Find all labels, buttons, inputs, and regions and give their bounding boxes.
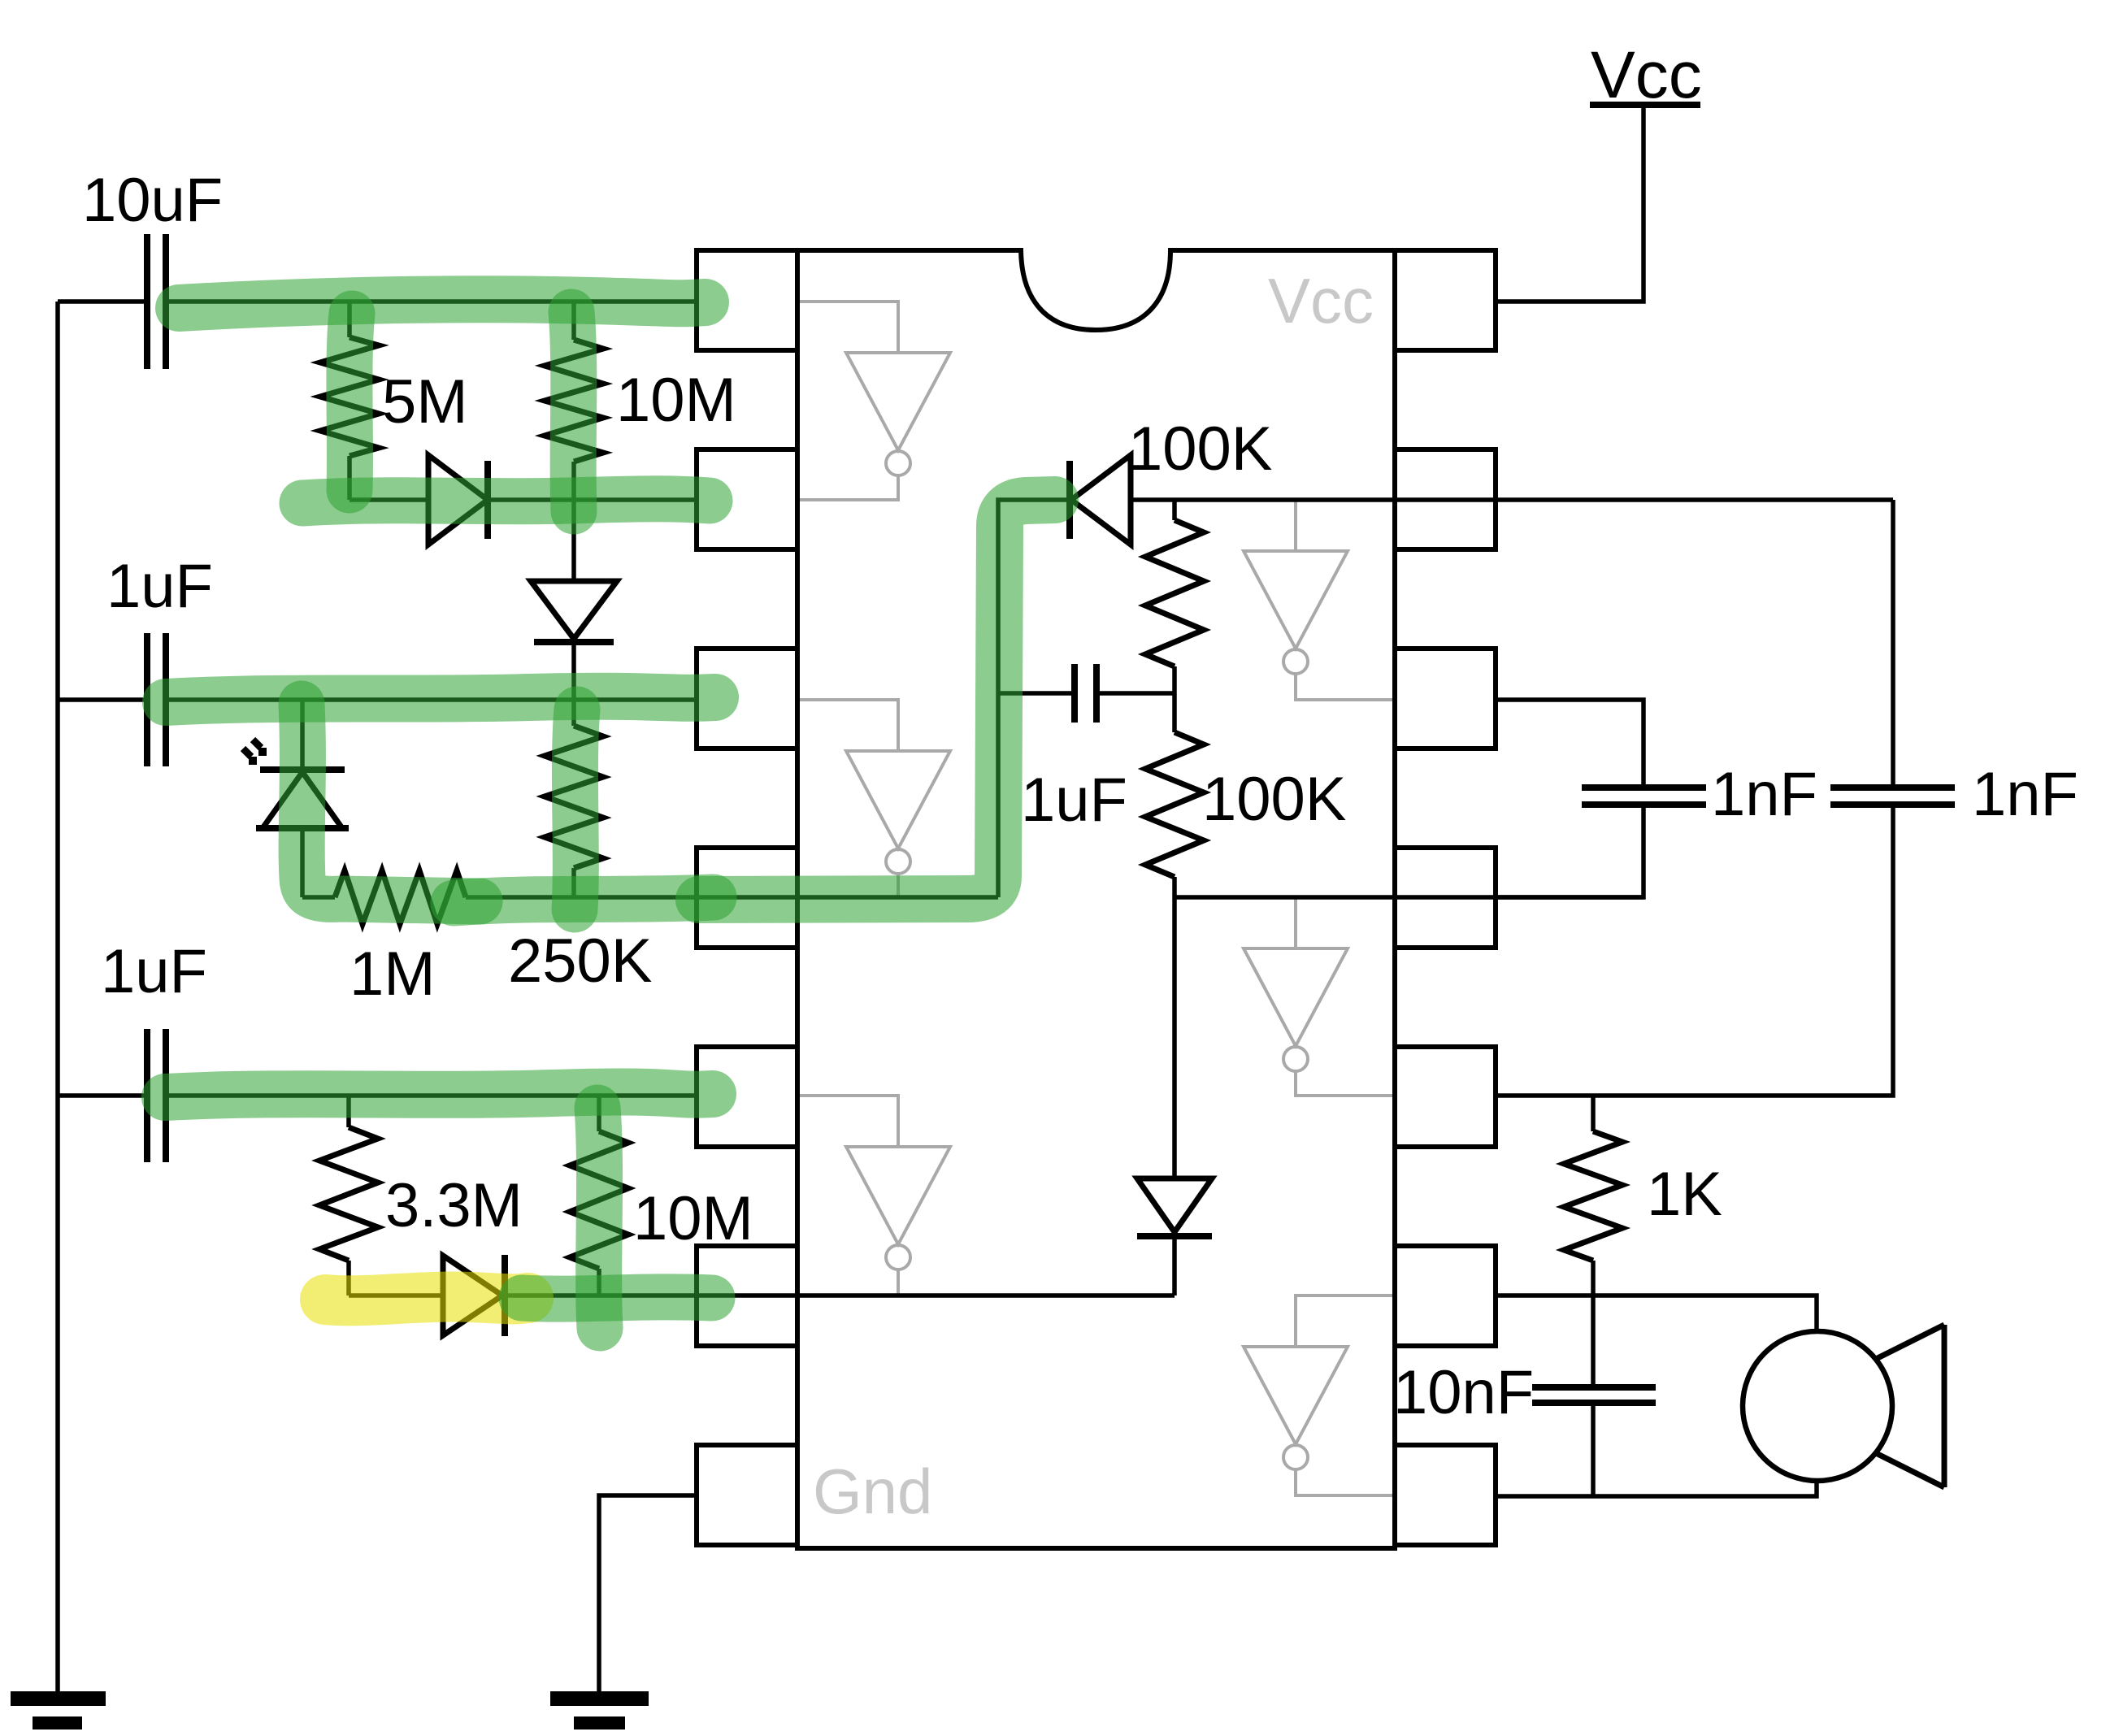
svg-text:1uF: 1uF xyxy=(101,937,207,1006)
inverter U1C (gray) xyxy=(797,1096,950,1295)
pin 9 box xyxy=(1395,1246,1496,1346)
wire pin9 row to speaker xyxy=(1496,1295,1817,1331)
diode D2 xyxy=(531,500,617,700)
IC body U1 (hex inverter) xyxy=(797,250,1395,1548)
speaker LS1 xyxy=(1743,1325,1944,1487)
highlight green pin1 wire xyxy=(179,299,706,308)
highlight green 5M xyxy=(350,314,352,490)
svg-text:5M: 5M xyxy=(382,367,468,436)
ground rail (left) xyxy=(55,302,60,1698)
resistor R9 1K xyxy=(1591,1096,1596,1131)
inverter U1E (gray) xyxy=(1244,897,1395,1096)
resistor R1 5M xyxy=(347,302,352,337)
wire pin7 to ground xyxy=(599,1495,697,1698)
pin 1 box xyxy=(697,250,797,350)
capacitor C2 1uF xyxy=(58,633,166,766)
capacitor C7 10nF xyxy=(1532,1387,1656,1496)
wire pin3 row xyxy=(166,697,697,702)
wire pin4 row (1M to IC) xyxy=(466,895,998,900)
pin 6 box xyxy=(697,1246,797,1346)
resistor R5 3.3M xyxy=(346,1096,351,1127)
pin 10 box xyxy=(1395,1047,1496,1147)
capacitor C3 1uF xyxy=(58,1029,166,1162)
highlight green pin2 wire xyxy=(302,499,710,503)
wire pin4 row (LED corner) xyxy=(302,895,335,900)
pin 7 box xyxy=(697,1445,797,1545)
pin 8 box xyxy=(1395,1445,1496,1545)
Vcc symbol xyxy=(1496,38,1702,302)
svg-text:1uF: 1uF xyxy=(1021,766,1127,835)
capacitor C1 10uF xyxy=(58,234,166,369)
diode D6 (points down) xyxy=(1137,897,1212,1295)
svg-text:10M: 10M xyxy=(633,1184,753,1253)
wire pin1 row xyxy=(166,299,697,304)
svg-text:Vcc: Vcc xyxy=(1591,38,1702,112)
highlight green pin6 wire xyxy=(522,1297,712,1299)
resistor R7 100K xyxy=(1172,500,1177,520)
svg-text:3.3M: 3.3M xyxy=(385,1171,523,1240)
wire pin13 row (diode to cap corner) xyxy=(1131,497,1893,502)
svg-text:250K: 250K xyxy=(508,927,653,996)
pin 3 box xyxy=(697,649,797,749)
wire pin5 row xyxy=(166,1093,697,1098)
wire pin2 row (5M corner to diode) xyxy=(350,497,428,502)
diode D4 xyxy=(443,1255,505,1336)
svg-text:10M: 10M xyxy=(616,366,736,435)
capacitor C6 1nF xyxy=(1496,500,1955,1096)
svg-text:Gnd: Gnd xyxy=(813,1456,932,1527)
highlight green pin3 wire xyxy=(166,697,715,702)
pin 11 box xyxy=(1395,848,1496,948)
wire pin6 row (3.3M corner to diode) xyxy=(349,1293,443,1298)
ground symbol (IC) xyxy=(550,1699,649,1723)
highlight yellow pin6 wire xyxy=(325,1296,528,1300)
svg-text:Vcc: Vcc xyxy=(1268,265,1374,336)
svg-text:1M: 1M xyxy=(350,940,436,1009)
svg-text:1uF: 1uF xyxy=(106,552,213,621)
resistor R8 100K xyxy=(1172,693,1177,732)
diode D1 xyxy=(428,455,488,545)
inverter U1A (gray) xyxy=(797,302,950,500)
LED light marks xyxy=(243,740,267,765)
pin 13 box xyxy=(1395,449,1496,549)
highlight green LED chain xyxy=(302,704,480,901)
wire pin2 row (diode to pin2) xyxy=(488,497,697,502)
pin 12 box xyxy=(1395,649,1496,749)
resistor R6 10M xyxy=(597,1096,601,1131)
svg-text:1nF: 1nF xyxy=(1972,760,2078,829)
resistor R4 250K xyxy=(571,700,576,726)
svg-text:100K: 100K xyxy=(1202,765,1347,834)
capacitor C5 1nF xyxy=(1496,700,1706,897)
pin 2 box xyxy=(697,449,797,549)
svg-text:1K: 1K xyxy=(1647,1160,1722,1229)
svg-text:10nF: 10nF xyxy=(1393,1358,1534,1427)
inverter U1D (gray) xyxy=(1244,1295,1395,1495)
resistor R2 10M xyxy=(571,302,576,340)
svg-text:1nF: 1nF xyxy=(1711,760,1817,829)
svg-text:10uF: 10uF xyxy=(82,166,223,235)
highlight green pin5 wire xyxy=(165,1092,713,1097)
highlight green 250K xyxy=(575,710,577,909)
capacitor C4 1uF (middle) xyxy=(998,664,1175,723)
svg-text:100K: 100K xyxy=(1128,414,1273,484)
highlight green pin4 net inside IC xyxy=(699,500,1055,900)
highlight green 10M R2 xyxy=(571,312,574,511)
resistor R3 1M xyxy=(335,870,466,924)
pin 5 box xyxy=(697,1047,797,1147)
inverter U1F (gray) xyxy=(1244,500,1395,700)
inverter U1B (gray) xyxy=(797,700,950,897)
wire pin11 row xyxy=(1175,895,1644,900)
LED D3 xyxy=(256,700,349,897)
wire pin8 row to speaker xyxy=(1496,1481,1817,1496)
wire pin4 net to diode D5 (vertical) xyxy=(998,500,1070,897)
pin 14 box xyxy=(1395,250,1496,350)
pin 4 box xyxy=(697,848,797,948)
diode D5 (points left) xyxy=(1070,455,1131,545)
highlight green 10M R6 xyxy=(597,1108,600,1328)
highlight green pin4 wire xyxy=(454,897,714,903)
ground symbol (left) xyxy=(11,1699,106,1723)
wire pin6 row (diode to diode D6) xyxy=(505,1293,1175,1298)
